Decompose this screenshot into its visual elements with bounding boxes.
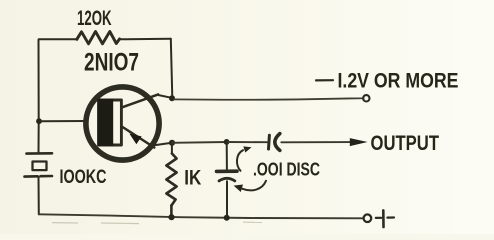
svg-text:I.2V OR MORE: I.2V OR MORE — [338, 69, 459, 92]
wire left vertical lower (crystal to bottom corner) — [38, 177, 40, 215]
junction dot C2 top node — [224, 139, 230, 145]
wire left vertical upper (corner to base node to crystal) — [38, 40, 40, 153]
svg-text:2NIO7: 2NIO7 — [84, 49, 139, 77]
wire C2 branch lower — [226, 181, 228, 217]
output arrow — [350, 138, 368, 146]
svg-text:IOOKC: IOOKC — [60, 167, 107, 188]
wire collector stub (circle to node) — [158, 95, 171, 98]
junction dot collector node — [169, 95, 175, 101]
wire collector vertical — [171, 39, 173, 98]
wire supply rail to terminal — [174, 98, 364, 100]
terminal supply — [363, 95, 369, 101]
annotation arrow to C2 — [234, 181, 266, 192]
resistor R1 — [77, 32, 120, 44]
wire emitter row (node to C1) — [227, 141, 267, 143]
terminal bottom right — [364, 214, 372, 222]
transistor Q1 2N107 — [86, 87, 159, 160]
label -1.2V OR MORE — [316, 79, 333, 81]
annotation arrow to C1 — [237, 146, 252, 170]
wire bottom rail — [39, 214, 364, 218]
wire base (node to transistor) — [41, 120, 86, 122]
junction dot C2 bottom — [224, 215, 230, 221]
junction dot base node — [36, 118, 42, 124]
wire top-left (left corner to R1) — [39, 38, 78, 41]
svg-text:IK: IK — [184, 166, 201, 190]
junction dot emitter node — [169, 140, 175, 146]
crystal Y1 100KC — [25, 153, 53, 176]
junction dot R2 bottom — [168, 214, 174, 220]
capacitor C2 (shunt .001 disc) — [217, 171, 238, 181]
svg-text:12OK: 12OK — [77, 6, 112, 30]
svg-text:OUTPUT: OUTPUT — [371, 131, 440, 155]
polarity plus marker — [376, 210, 394, 227]
wire emitter stub (circle to emitter node) — [154, 143, 172, 145]
svg-text:.OOI DISC: .OOI DISC — [253, 160, 320, 180]
wire output (C1 to arrow) — [281, 141, 352, 143]
resistor R2 1K — [166, 145, 176, 217]
wire emitter row (to C2 node) — [172, 141, 227, 144]
wire top-right (R1 to collector corner) — [119, 38, 171, 41]
wire C2 branch upper — [226, 142, 228, 169]
capacitor C1 (series .001 disc) — [269, 134, 280, 151]
